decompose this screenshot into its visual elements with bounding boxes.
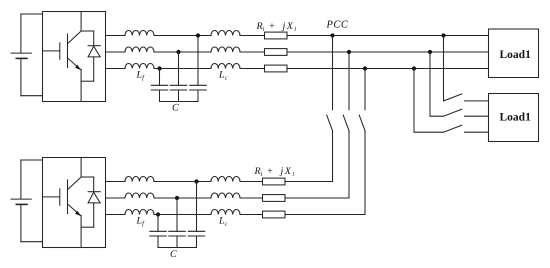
wire bottom connector D1 anode to emitter [81,80,94,82]
inverter U2 box [43,158,106,248]
wire phase A to line impedance [240,35,265,37]
wire phase A to tie switch (unit 2) [285,181,333,183]
wire capacitor tap phase C [159,69,161,86]
wire phase C to Load1 [287,68,489,70]
switch S1c blade [359,115,365,131]
diode D2 anode lead [93,203,95,227]
inductor Lc phase C (unit 2) [211,209,240,214]
transistor Q2 (IGBT) gate lead [43,196,60,198]
inductor Lc phase B [211,47,240,52]
load Load1 (lower) box [489,94,539,142]
wire phase C to line impedance (unit 2) [240,214,263,216]
transistor Q1 body bar [67,34,69,68]
capacitor C phase B (middle) [170,85,187,101]
transistor Q1 (IGBT) gate lead [43,50,60,52]
transistor Q2 emitter lead with arrow [68,204,81,215]
wire phase A from U2 to filter inductor [106,181,126,183]
node phase C capacitor tap [157,66,161,70]
transistor Q2 gate bar [59,189,61,205]
wire capacitor tap phase A [197,36,199,86]
resistor Rl+jXl phase A (unit 2) [263,178,286,185]
switch S1b phase B fixed lead [348,52,350,110]
switch S2b blade [444,109,462,116]
inductor Lc phase B (unit 2) [211,193,240,198]
resistor Rl+jXl phase C (unit 2) [263,211,286,218]
resistor Rl+jXl phase A [265,32,288,39]
diode D1 cathode bar [88,45,100,47]
inductor Lf phase A [125,30,154,35]
wire phase C to line impedance [240,68,265,70]
inverter U1 box [43,12,106,102]
wire capacitor tap phase B [178,52,180,85]
capacitor C phase C (unit 2 left) [150,231,167,247]
node phase B capacitor tap (unit 2) [175,196,179,200]
resistor Rl+jXl phase B [265,49,288,56]
diode D1 anode lead [93,57,95,81]
wire capacitor tap phase A (unit 2) [196,182,198,232]
wire collector top connector to diode D1 [81,30,94,32]
DC source V2 (battery) [11,160,31,242]
wire S1b to inverter 2 phase B [348,131,350,198]
diode D2 triangle [88,192,100,203]
transistor Q1 emitter vertical to box bottom [80,69,82,101]
svg-text:PCC: PCC [326,19,349,30]
wire phase B drop to switch S2b [430,52,444,116]
wire S2c to Load2 [465,131,489,133]
wire phase A to node [154,35,211,37]
inductor Lf phase A (unit 2) [125,176,154,181]
node PCC phase B [347,50,351,54]
wire phase C to node (unit 2) [154,214,211,216]
node PCC phase A [330,33,334,37]
switch S1a phase A fixed lead [332,36,334,110]
inductor Lf phase B [125,47,154,52]
transistor Q1 gate bar [59,43,61,59]
wire collector top connector to diode D2 [81,176,94,178]
inductor Lc phase A (unit 2) [211,176,240,181]
node PCC phase C [363,66,367,70]
wire capacitor common bus [160,101,199,103]
inductor Lc phase C [211,63,240,68]
switch S1a blade [327,115,333,131]
wire phase B from U2 to filter inductor [106,197,126,199]
DC source V1 (battery) [11,14,31,96]
capacitor C phase A (unit 2 right) [188,231,205,247]
transistor Q2 collector lead [68,158,81,190]
transistor Q2 emitter vertical to box bottom [80,215,82,247]
wire phase A to node (unit 2) [154,181,211,183]
node phase C capacitor tap (unit 2) [156,212,160,216]
wire S2b to Load2 [465,115,489,117]
capacitor C phase B (unit 2 middle) [169,231,186,247]
wire phase B to node [154,51,211,53]
wire phase C from U1 to filter inductor [106,68,126,70]
wire phase C from U2 to filter inductor [106,214,126,216]
diode D1 cathode lead [93,31,95,46]
transistor Q2 body bar [67,180,69,214]
inductor Lf phase C (unit 2) [125,209,154,214]
wire S1c to inverter 2 phase C [364,131,366,215]
wire phase B from U1 to filter inductor [106,51,126,53]
svg-text:C: C [172,103,179,114]
node phase A load2 tap [441,33,445,37]
capacitor C phase C (left) [151,85,168,101]
wire V2 negative to inverter U2 [21,241,43,243]
resistor Rl+jXl phase C [265,65,288,72]
svg-text:Load1: Load1 [500,111,532,123]
wire capacitor tap phase C (unit 2) [157,215,159,232]
wire phase A drop to switch S2a [443,36,445,101]
capacitor C phase A (right) [190,85,207,101]
node phase B load2 tap [428,50,432,54]
transistor Q1 emitter lead with arrow [68,58,81,69]
inductor Lf phase C [125,63,154,68]
wire phase A from U1 to filter inductor [106,35,126,37]
wire phase C drop to switch S2c [414,69,444,133]
wire V1 positive to inverter U1 [21,13,43,15]
diode D2 cathode bar [88,191,100,193]
node phase A capacitor tap [196,33,200,37]
diode D1 triangle [88,46,100,57]
wire phase A to line impedance (unit 2) [240,181,263,183]
wire phase B to node (unit 2) [154,197,211,199]
node phase A capacitor tap (unit 2) [194,179,198,183]
load Load1 (upper) box [489,29,539,78]
wire V1 negative to inverter U1 [21,95,43,97]
resistor Rl+jXl phase B (unit 2) [263,195,286,202]
wire bottom connector D2 anode to emitter [81,226,94,228]
transistor Q1 collector lead [68,12,81,44]
node phase B capacitor tap [176,50,180,54]
switch S1b blade [343,115,349,131]
wire phase C to tie switch (unit 2) [285,214,365,216]
wire phase B to tie switch (unit 2) [285,197,349,199]
inductor Lf phase B (unit 2) [125,193,154,198]
wire V2 positive to inverter U2 [21,159,43,161]
wire phase B to Load1 [287,51,489,53]
wire phase B to line impedance [240,51,265,53]
inductor Lc phase A [211,30,240,35]
wire phase A to Load1 [287,35,489,37]
switch S2c blade [444,125,462,132]
switch S1c phase C fixed lead [364,69,366,110]
wire S2a to Load2 [465,100,489,102]
wire phase B to line impedance (unit 2) [240,197,263,199]
switch S2a blade [444,94,462,101]
diode D2 cathode lead [93,177,95,192]
wire capacitor tap phase B (unit 2) [176,198,178,231]
wire phase C to node [154,68,211,70]
node phase C load2 tap [412,66,416,70]
svg-text:Load1: Load1 [500,49,532,61]
wire S1a to inverter 2 phase A [332,131,334,182]
svg-text:C: C [170,249,177,260]
wire capacitor common bus (unit 2) [158,247,197,249]
